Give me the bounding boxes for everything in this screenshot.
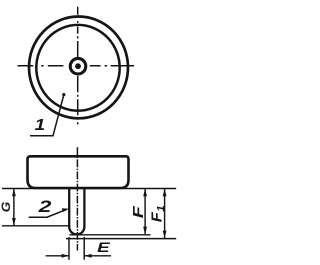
svg-text:F: F: [130, 205, 147, 218]
svg-text:G: G: [1, 202, 13, 213]
svg-text:2: 2: [37, 198, 51, 216]
svg-text:E: E: [97, 239, 110, 255]
svg-text:1: 1: [35, 117, 46, 134]
